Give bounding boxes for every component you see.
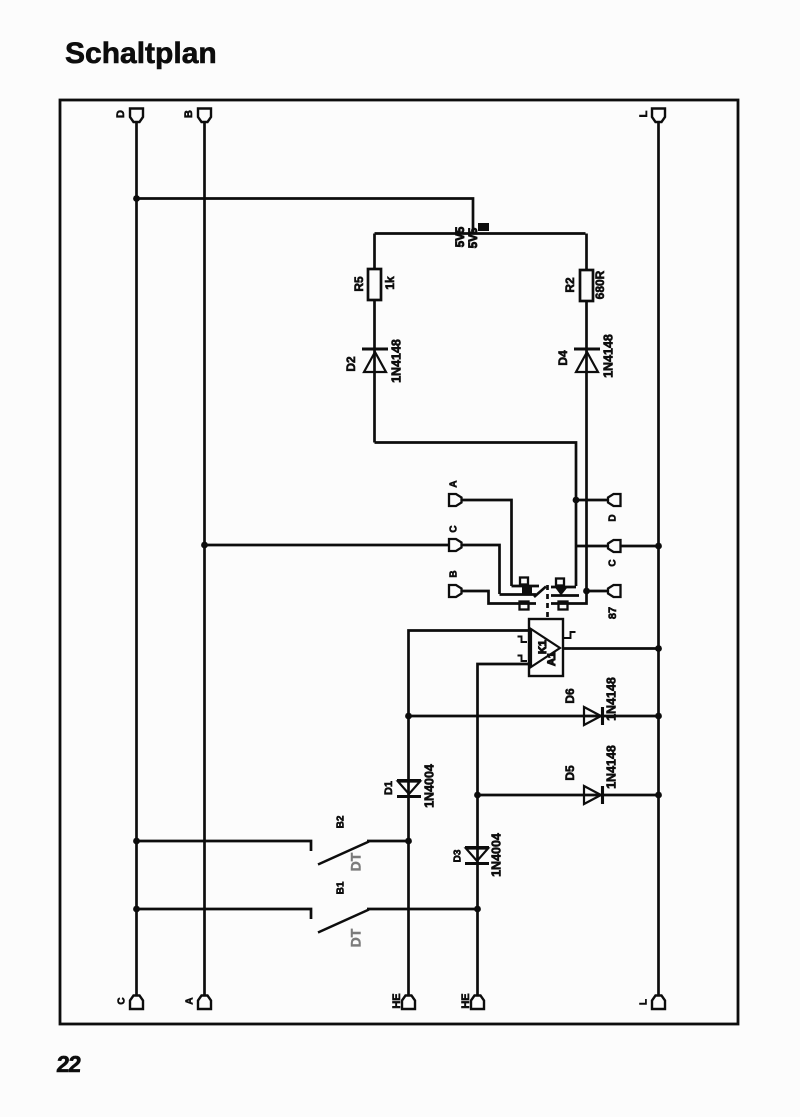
svg-text:B2: B2 bbox=[336, 815, 347, 828]
wire R2 to D4 bbox=[585, 301, 588, 591]
relay pin triangle right mid filled bbox=[556, 588, 568, 596]
svg-text:K1: K1 bbox=[537, 640, 549, 654]
connector RT2 bbox=[608, 540, 621, 552]
resistor R5 bbox=[368, 269, 381, 300]
wire R5 top lead bbox=[373, 234, 376, 270]
relay contact right bottom line bbox=[551, 591, 587, 604]
svg-text:D: D bbox=[608, 514, 619, 521]
diode D4 bbox=[574, 349, 600, 372]
svg-text:B1: B1 bbox=[336, 881, 347, 894]
node junction bus1 y198 bbox=[133, 195, 140, 202]
wire RT3 bbox=[587, 590, 609, 593]
connector C bbox=[449, 539, 462, 551]
svg-text:87: 87 bbox=[607, 607, 619, 619]
relay coil box K1 bbox=[529, 619, 563, 676]
wire RT1 bbox=[576, 499, 608, 502]
node junction relay right y591 bbox=[583, 588, 590, 595]
svg-text:1N4148: 1N4148 bbox=[604, 677, 618, 721]
diode D1 bbox=[397, 781, 421, 797]
svg-text:A: A bbox=[185, 997, 196, 1004]
svg-text:L: L bbox=[638, 110, 650, 117]
wire terminal B to contact bbox=[462, 591, 537, 604]
node junction bus2 y545 bbox=[201, 542, 208, 549]
connector RT1 bbox=[608, 494, 621, 506]
wire bus1 left vertical bbox=[135, 121, 138, 995]
wire D6 line bbox=[409, 715, 659, 718]
switch B2 blade bbox=[318, 842, 369, 865]
node label 5V5 right bbox=[468, 223, 489, 248]
svg-text:HE: HE bbox=[391, 993, 403, 1008]
relay contact right NC line bbox=[551, 594, 579, 597]
connector bottom B5 bbox=[652, 996, 665, 1010]
switch B1 right arm bbox=[367, 908, 478, 911]
svg-text:22: 22 bbox=[56, 1051, 82, 1077]
border frame bbox=[60, 100, 738, 1024]
diode D5 bbox=[584, 786, 603, 804]
connector bottom B4 bbox=[471, 996, 484, 1010]
wire coil lower left lead bbox=[478, 664, 530, 995]
node junction x408 y841 bbox=[405, 838, 412, 845]
relay pin square left mid filled bbox=[522, 587, 532, 594]
relay coil pin 7 hook bbox=[518, 656, 528, 662]
node junction bus3 y546 bbox=[655, 543, 662, 550]
svg-text:1N4004: 1N4004 bbox=[422, 764, 436, 808]
node junction bus3 y795 bbox=[655, 792, 662, 799]
svg-text:1k: 1k bbox=[383, 276, 397, 290]
svg-text:B: B bbox=[183, 110, 195, 118]
svg-text:C: C bbox=[449, 525, 460, 532]
wire bus2 second vertical bbox=[203, 121, 206, 995]
connector RT3 bbox=[608, 585, 621, 597]
relay contact right common line bbox=[551, 586, 576, 589]
svg-text:R5: R5 bbox=[352, 276, 366, 292]
wire R2 top lead bbox=[585, 234, 588, 271]
wire R5 to D2 bbox=[373, 300, 376, 443]
wire node 5V5 horizontal bbox=[375, 232, 586, 235]
wire bus2 to terminal C bbox=[205, 544, 450, 547]
node junction bus1 y841 bbox=[133, 838, 140, 845]
svg-text:680R: 680R bbox=[593, 270, 607, 299]
diode D2 bbox=[362, 349, 388, 372]
node junction x477 y909 bbox=[474, 906, 481, 913]
node junction bus3 y648 bbox=[655, 645, 662, 652]
relay pin square right bottom bbox=[559, 602, 568, 610]
relay coil inner text bbox=[537, 640, 558, 666]
node junction bus1 y909 bbox=[133, 906, 140, 913]
resistor R2 bbox=[580, 270, 593, 301]
node junction x408 y716 bbox=[405, 713, 412, 720]
svg-text:A: A bbox=[449, 480, 460, 487]
node junction bus3 y716 bbox=[655, 713, 662, 720]
connector bottom B1 bbox=[130, 996, 143, 1010]
relay contact left common line bbox=[512, 585, 540, 588]
relay contact left blade bbox=[534, 587, 546, 598]
wire terminal C to contact bbox=[462, 545, 500, 594]
svg-text:1N4004: 1N4004 bbox=[489, 833, 503, 877]
svg-text:Schaltplan: Schaltplan bbox=[65, 37, 217, 70]
relay pin square left bottom bbox=[520, 602, 529, 610]
diode D3 bbox=[465, 848, 489, 864]
wire D2 down and across to x575 bbox=[375, 443, 577, 587]
connector A bbox=[449, 494, 462, 506]
diode D6 bbox=[584, 707, 603, 725]
relay contact left NC line bbox=[500, 593, 537, 596]
svg-text:D1: D1 bbox=[383, 781, 395, 795]
relay coil triangle bbox=[531, 629, 560, 667]
connector top right L bbox=[652, 109, 665, 123]
switch B1 left arm bbox=[137, 909, 312, 919]
svg-text:5V5: 5V5 bbox=[455, 226, 467, 247]
svg-text:L: L bbox=[639, 999, 650, 1005]
svg-text:D2: D2 bbox=[344, 356, 358, 372]
connector top T1 bbox=[130, 109, 143, 123]
svg-text:1N4148: 1N4148 bbox=[601, 334, 615, 378]
relay coil pin 2 hook bbox=[518, 637, 528, 643]
svg-text:C: C bbox=[117, 997, 128, 1004]
svg-text:1N4148: 1N4148 bbox=[604, 745, 618, 789]
svg-text:D: D bbox=[115, 110, 127, 118]
relay pin square left top bbox=[520, 578, 528, 585]
svg-text:DT: DT bbox=[348, 852, 364, 871]
relay pin square right top bbox=[556, 579, 564, 586]
node junction x477 y795 bbox=[474, 792, 481, 799]
wire D5 line bbox=[478, 794, 659, 797]
wire coil upper left lead bbox=[409, 631, 530, 996]
svg-text:DT: DT bbox=[348, 928, 364, 947]
switch B2 right arm bbox=[367, 840, 409, 843]
wire top horizontal y198 bbox=[137, 199, 474, 234]
svg-text:D5: D5 bbox=[563, 765, 577, 781]
relay coil right hook bbox=[563, 632, 576, 638]
wire RT2 right arm bbox=[621, 545, 659, 548]
connector B bbox=[449, 585, 462, 597]
switch B2 left arm bbox=[137, 841, 312, 851]
svg-text:1N4148: 1N4148 bbox=[389, 339, 403, 383]
connector bottom B2 bbox=[198, 996, 211, 1010]
svg-text:R2: R2 bbox=[563, 277, 577, 293]
svg-text:HE: HE bbox=[460, 993, 472, 1008]
svg-text:A1: A1 bbox=[546, 652, 558, 666]
wire coil right lead bbox=[563, 647, 659, 650]
wire RT2 left arm bbox=[576, 545, 608, 548]
connector bottom B3 bbox=[402, 996, 415, 1010]
relay contact center tick bbox=[546, 585, 549, 590]
relay mechanical dashed link bbox=[546, 594, 549, 619]
svg-text:B: B bbox=[449, 570, 460, 577]
switch B1 blade bbox=[318, 910, 369, 933]
svg-text:D4: D4 bbox=[556, 350, 570, 366]
wire bus3 right vertical bbox=[657, 121, 660, 995]
wire terminal A to contact bbox=[462, 500, 512, 586]
svg-text:C: C bbox=[608, 559, 619, 566]
connector top T2 bbox=[198, 109, 211, 123]
svg-text:D3: D3 bbox=[453, 849, 464, 862]
svg-text:D6: D6 bbox=[563, 688, 577, 704]
node junction RT1 x576 bbox=[573, 497, 580, 504]
